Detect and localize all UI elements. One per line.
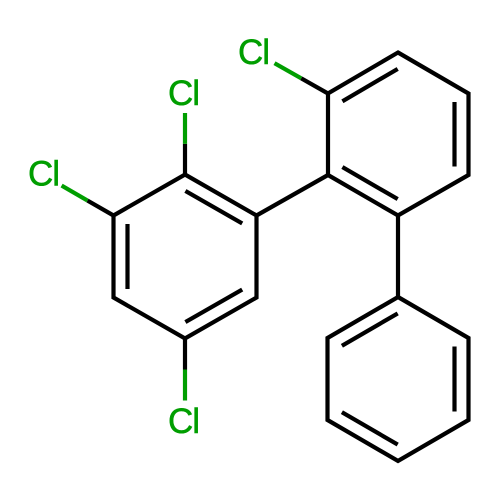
C-Cl bond ring A left (chlorine half) [62, 186, 88, 201]
benzene ring C (phenyl, bottom right) outline [328, 297, 469, 461]
C-Cl bond ring A bottom (chlorine half) [183, 370, 187, 401]
ring C double bond inner line C6=C1 [342, 313, 398, 345]
C-Cl bond ring A top (carbon half) [183, 144, 187, 175]
ring A double bond inner line C5=C6 [125, 224, 129, 289]
ring A double bond inner line C3=C4 [185, 290, 242, 323]
ring B double bond inner line C2=C3 [452, 102, 456, 167]
svg-text:Cl: Cl [168, 402, 199, 441]
biphenyl bond ring B to ring C [396, 216, 400, 298]
C-Cl bond ring A bottom (carbon half) [183, 339, 187, 370]
benzene ring A (trichlorophenyl, left) outline [114, 175, 257, 339]
benzene ring B (central, chloro) outline [328, 53, 469, 216]
C-Cl bond ring B top (carbon half) [301, 78, 328, 93]
svg-text:Cl: Cl [168, 74, 199, 113]
svg-text:Cl: Cl [238, 33, 269, 72]
svg-text:Cl: Cl [28, 155, 59, 194]
ring B double bond inner line C5=C4 [342, 167, 397, 199]
biphenyl bond ring A to ring B [257, 175, 329, 216]
ring B double bond inner line C6=C1 [342, 69, 397, 101]
ring C double bond inner line C5=C4 [342, 412, 398, 444]
ring A double bond inner line C1=C2 [185, 191, 242, 224]
C-Cl bond ring B top (chlorine half) [275, 63, 302, 78]
ring C double bond inner line C2=C3 [452, 347, 456, 412]
C-Cl bond ring A left (carbon half) [88, 201, 114, 216]
C-Cl bond ring A top (chlorine half) [183, 113, 187, 144]
